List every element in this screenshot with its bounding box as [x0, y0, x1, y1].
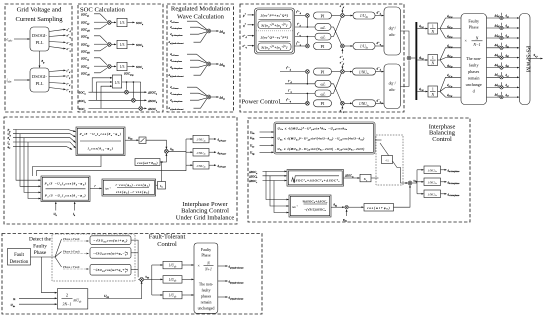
svg-text:1/3: 1/3: [120, 43, 125, 47]
node sum a: [107, 21, 111, 25]
wire SOC_c out: [128, 65, 135, 67]
svg-text:faulty: faulty: [201, 289, 210, 293]
svg-text:1: 1: [432, 25, 434, 29]
wire riser c into 1/3: [101, 86, 112, 108]
wire e-q output: [49, 47, 72, 53]
wire selector output: [397, 168, 408, 184]
block 1/NUdc neg d: [353, 68, 376, 75]
wire d_c,g: [417, 87, 427, 92]
wire dSOC_b input: [248, 174, 287, 179]
svg-text:Under Grid Imbalance: Under Grid Imbalance: [176, 214, 235, 221]
wire r to arctan: [90, 184, 102, 188]
wire i+d output: [49, 69, 71, 74]
svg-text:N+1: N+1: [204, 268, 212, 272]
wire cos to multiplier: [160, 154, 166, 162]
block 1/3 divider c: [117, 62, 127, 70]
block 1/3 divider b: [117, 40, 127, 48]
wire split vertical interphase: [416, 170, 418, 194]
wire delta d_bj out: [211, 63, 219, 65]
wire SOC_b2: [81, 42, 107, 47]
label d_b1g d_b2g d_b3g: [447, 44, 453, 69]
wire ft a to scaler: [182, 264, 194, 266]
wire SOC_c1: [81, 56, 107, 64]
wire to 1/NUdc b: [186, 151, 193, 153]
wire sum to 1/NUdc q: [345, 102, 352, 104]
section box: grid voltage and current sampling: [5, 4, 72, 112]
svg-text:remain: remain: [468, 76, 481, 81]
wire delta d_cj out: [211, 96, 219, 98]
svg-text:The non-: The non-: [199, 283, 214, 287]
node sum row a3: [500, 36, 503, 39]
wire merge to bus bar: [411, 57, 415, 59]
node delta c: [139, 107, 143, 111]
svg-text:abc: abc: [389, 87, 395, 92]
wire e-d feedforward: [340, 60, 345, 68]
node sum e+q: [341, 44, 345, 48]
svg-text:<1: <1: [385, 158, 389, 162]
wire feedback loop 2: [36, 165, 186, 176]
wire d_cj-fault-tolerant out: [218, 296, 244, 301]
node sum row b2: [500, 56, 503, 59]
node sum delta-d c: [207, 95, 211, 99]
group SOC_c averaging: [81, 56, 143, 76]
section box: SOC calculation: [78, 4, 163, 112]
svg-text:Wave Calculation: Wave Calculation: [177, 13, 225, 20]
wire d_aj-interphase: [170, 32, 207, 37]
wire e-d output: [49, 41, 72, 46]
node delta b: [132, 98, 136, 102]
wire SOC_cN: [81, 68, 107, 76]
node sum e-d: [341, 70, 345, 74]
block 1/Udc pos q: [353, 43, 375, 50]
wire theta_g between PLLs: [40, 51, 46, 68]
block 1/N phase b: [428, 55, 438, 66]
wire limit into selector: [375, 139, 382, 141]
svg-text:1/3: 1/3: [120, 65, 125, 69]
wire SOC_bN: [81, 46, 107, 54]
section box: interphase balancing control: [248, 118, 470, 222]
wire modulation row b3: [487, 62, 520, 68]
wire multiplier to split ft: [144, 278, 152, 280]
wire d_a-interphase: [170, 25, 207, 30]
wire SOC_a bus: [79, 91, 147, 96]
neg sequence row: i*-d: [280, 66, 305, 72]
node tap 1: [126, 81, 128, 83]
wire SOC_b bus: [79, 99, 147, 104]
svg-text:Phase a Fault: Phase a Fault: [63, 237, 80, 241]
wire Udc input: [11, 303, 57, 308]
group SOC_b averaging: [81, 34, 144, 54]
wire U_03 to multiplier: [88, 282, 142, 299]
label phase c fault: [63, 265, 89, 269]
wire SOC_c2: [81, 64, 107, 69]
svg-text:remain: remain: [201, 301, 212, 305]
svg-text:The non-: The non-: [466, 56, 482, 61]
block zero-seq voltage amplitude calc: [76, 127, 125, 156]
wire i*+d reference: [295, 10, 306, 16]
block 1/Udc ft a: [163, 261, 182, 269]
wire to 1/Udc ft b: [152, 278, 163, 280]
group SOC_a averaging: [81, 12, 144, 32]
svg-text:ωL: ωL: [321, 83, 326, 87]
svg-text:Phase c Fault: Phase c Fault: [63, 265, 80, 269]
wire wave b out: [131, 252, 138, 254]
wire i_abc input: [7, 78, 30, 84]
wire e_abc input: [7, 37, 30, 43]
node sum c: [107, 65, 111, 69]
block PI controller neg d: [314, 68, 332, 75]
block 1/NUdc power c: [193, 162, 209, 170]
node sum i+d: [306, 14, 310, 18]
wire i-d output: [49, 82, 71, 87]
svg-text:phases: phases: [468, 69, 480, 74]
wire U_0b input: [250, 136, 274, 141]
section box: interphase power balancing under grid unbalance: [4, 117, 237, 224]
block wave c: [90, 264, 131, 275]
block current reference calculator: [255, 8, 295, 54]
wire into multiplier u03: [138, 278, 139, 280]
wire wave c out: [131, 269, 138, 271]
wire fanout b: [438, 48, 461, 68]
block 1/3 average: [112, 75, 121, 88]
svg-text:Current Sampling: Current Sampling: [15, 16, 63, 23]
group delta-d b: [169, 52, 226, 78]
node sum row c1: [500, 76, 503, 79]
wire d_a-interphase out: [441, 169, 460, 173]
wire multiplier to split: [169, 150, 187, 152]
svg-text:ωL: ωL: [321, 26, 326, 30]
svg-text:PS-SPWM: PS-SPWM: [524, 46, 530, 73]
wire split vertical ft: [151, 265, 153, 295]
wire theta_02 out: [331, 204, 344, 208]
block 1/N phase c: [428, 86, 438, 97]
svg-text:Power Control: Power Control: [242, 99, 281, 106]
wire to 1/NUdc a: [186, 138, 193, 140]
wire d_bj-fault-tolerant out: [218, 280, 244, 285]
wire SOC_a2: [81, 20, 107, 25]
wire drop to delta a: [126, 82, 128, 90]
block 1/NUdc interphase c: [424, 190, 441, 198]
block omega-L pos 2: [315, 33, 331, 40]
wire d_cj-interphase: [170, 98, 207, 103]
wire d-d: [376, 67, 384, 72]
wire d-q: [376, 98, 384, 103]
svg-text:N: N: [430, 93, 434, 97]
wire delta d_aj out: [211, 30, 219, 32]
wire phi_a input: [8, 145, 73, 150]
wire d_c-Power: [170, 85, 207, 96]
wire sum to 1/Udc q: [345, 45, 353, 47]
wire U_b bottom input: [54, 202, 58, 217]
svg-text:1: 1: [432, 56, 434, 60]
wire dSOC_a to arctan: [266, 171, 289, 199]
block omega-L neg 2: [315, 90, 331, 97]
wire d_bj-fault-tolerant: [169, 66, 207, 78]
svg-text:unchanged: unchanged: [198, 307, 215, 311]
block dq+/abc transform: [384, 7, 401, 55]
selector dashed box: [376, 135, 403, 185]
inner dashed box: phase selection: [52, 234, 135, 281]
node delta a: [125, 90, 129, 94]
svg-text:PI: PI: [321, 13, 325, 18]
node sum delta-d b: [207, 62, 211, 66]
svg-text:Faulty: Faulty: [201, 247, 211, 252]
wire modulation row c2: [487, 82, 520, 88]
wire wave a out: [131, 240, 138, 277]
wire d_b-Power: [170, 52, 207, 63]
wire to 1/3 a: [112, 21, 117, 23]
node multiplier u_0a: [165, 149, 169, 153]
svg-text:Phase: Phase: [469, 25, 479, 30]
wire modulation row c1: [487, 72, 520, 78]
svg-text:N: N: [475, 35, 479, 40]
node sum row a1: [500, 16, 503, 19]
wire riser a into 1/3: [92, 78, 112, 92]
block 1/Udc ft b: [163, 276, 182, 284]
wire dSOC_m out: [344, 175, 360, 179]
wire i-q output: [49, 88, 71, 94]
block DSOGI-PLL U1 (voltage): [30, 27, 49, 51]
block 1/NUdc neg q: [353, 100, 376, 107]
section box: power control: [240, 4, 404, 112]
node sum delta-d a: [207, 29, 211, 33]
wire PI d to sum: [332, 15, 341, 17]
svg-text:N−1: N−1: [472, 42, 480, 47]
wire sum to 1/NUdc d: [345, 71, 352, 73]
svg-text:2(ed+Q*−eq+P*): 2(ed+Q*−eq+P*): [261, 35, 289, 39]
block Kp gain: [360, 174, 371, 182]
wire SOC_c bus: [79, 107, 147, 112]
wire i+q feedback: [295, 32, 315, 44]
svg-text:faulty: faulty: [469, 63, 480, 68]
svg-text:PLL: PLL: [36, 81, 44, 86]
wire SOC_avg distribution: [122, 81, 141, 83]
wire e+d feedforward: [340, 4, 345, 13]
wire modulation row c3: [487, 92, 520, 98]
wire d_b-interphase: [170, 58, 207, 63]
wire d_aj-fault-tolerant out: [218, 265, 244, 270]
wire omega-L neg cross down: [331, 84, 341, 102]
wire modulation row a3: [487, 33, 520, 39]
svg-text:DSOGI-: DSOGI-: [32, 33, 47, 38]
wire theta to cos block: [160, 162, 161, 182]
block 1/Udc pos d: [353, 12, 375, 19]
svg-text:Detection: Detection: [10, 260, 29, 265]
wire p* input: [242, 13, 254, 17]
switch arm c: [55, 257, 62, 267]
block PI controller neg q: [314, 100, 332, 107]
wire S_xy output: [530, 53, 543, 59]
wire drop bus 2: [20, 134, 41, 187]
wire phi_0a input: [343, 210, 348, 223]
wire d_a,g: [417, 24, 427, 29]
wire d_c-interphase out: [441, 193, 460, 197]
svg-text:Faulty: Faulty: [468, 19, 480, 24]
wire d+q: [375, 41, 384, 46]
wire fault info down to U03 calc: [42, 257, 57, 293]
wire multiplier to split: [412, 182, 417, 184]
wire to 1/NUdc ip a: [417, 169, 424, 171]
block 1/Udc ft c: [163, 291, 182, 299]
switch arm b: [55, 252, 62, 258]
block zero-seq voltage limit calc: [274, 122, 375, 154]
svg-text:1/3: 1/3: [120, 21, 125, 25]
switch arm: [380, 143, 397, 168]
node sum b: [107, 43, 111, 47]
label phase a fault: [63, 237, 89, 241]
wire theta_u input: [8, 136, 76, 142]
wire U_0c input: [250, 144, 274, 149]
block PI controller pos q: [314, 43, 332, 50]
svg-text:Faulty: Faulty: [33, 243, 47, 249]
svg-text:Grid Voltage and: Grid Voltage and: [17, 7, 63, 14]
wire cos to multiplier: [394, 185, 411, 207]
block dq-/abc transform: [384, 64, 401, 109]
svg-text:1/3: 1/3: [114, 80, 119, 85]
wire to 1/NUdc ip c: [417, 193, 424, 195]
wire fault detect out: [31, 256, 56, 258]
wire to 1/NUdc c: [186, 164, 193, 166]
wire U_0a out: [125, 136, 139, 141]
block fault detection: [8, 249, 31, 266]
wire i+q output: [49, 74, 71, 79]
wire to 1/3 b: [112, 43, 117, 45]
wire e-q feedforward: [340, 106, 345, 113]
node sum i-q: [306, 101, 310, 105]
wire fanout c: [438, 77, 461, 97]
svg-text:PLL: PLL: [36, 40, 44, 45]
block 1/3 divider a: [117, 18, 127, 26]
block 1/NUdc interphase b: [424, 178, 441, 186]
block 1/NUdc power b: [193, 149, 209, 157]
block arctan SOC angle: [289, 195, 331, 217]
wire i-q feedback: [285, 89, 315, 102]
block limiter small: [139, 137, 146, 144]
svg-text:U0b ≤ √(MUdc)²−U2phsin²(4π/3−θ: U0b ≤ √(MUdc)²−U2phsin²(4π/3−θ0a) −Uphco…: [278, 137, 365, 142]
wire U_g input: [8, 132, 76, 137]
svg-text:PI: PI: [321, 69, 325, 74]
svg-text:2: 2: [66, 293, 68, 298]
wire modulation row a1: [487, 13, 520, 19]
wire sum to 1/Udc d: [345, 15, 353, 17]
wire ft c to scaler: [182, 294, 194, 296]
node sum row b3: [500, 66, 503, 69]
svg-text:PI: PI: [321, 44, 325, 49]
wire K out to selector: [371, 177, 379, 179]
svg-text:ωL: ωL: [321, 92, 326, 96]
wire drop to delta c: [140, 82, 142, 106]
block theta_0a tag: [158, 182, 166, 190]
block arctan ratio: [102, 179, 156, 196]
wire modulation row b2: [487, 52, 520, 58]
wire d_b-Power out: [209, 152, 226, 156]
block omega-L pos 1: [315, 24, 331, 31]
wire to 1/NUdc ip b: [417, 181, 424, 183]
svg-text:phases: phases: [201, 295, 212, 299]
svg-text:N: N: [430, 30, 434, 34]
svg-text:1: 1: [432, 88, 434, 92]
wire omega-L cross down: [331, 27, 341, 44]
switch arm a: [55, 239, 62, 257]
svg-text:Phase: Phase: [201, 253, 211, 258]
wire drop to delta b: [132, 82, 134, 98]
wire I_b bottom input: [72, 202, 76, 217]
wire SOC_b out: [128, 43, 135, 45]
node sum row b1: [500, 46, 503, 49]
wire ft b to scaler: [182, 278, 194, 280]
wire dSOC_c input: [248, 179, 287, 184]
wire arctan to theta tag: [156, 184, 158, 186]
block comparator <1: [382, 156, 393, 164]
block phase power ratio calc: [41, 176, 90, 202]
wire fanout a: [438, 18, 461, 38]
wire drop bus 4: [28, 142, 41, 199]
wire d_a-Power: [170, 19, 207, 30]
wire U_0a input: [250, 130, 274, 135]
wire split vertical: [185, 139, 187, 165]
wire dSOC_b to arctan: [270, 176, 289, 206]
block U03 amplitude calc: [57, 289, 87, 309]
group delta-d a: [169, 19, 226, 45]
svg-text:×: ×: [198, 263, 200, 268]
wire dq- out to merge: [401, 61, 410, 87]
block 1/NUdc interphase a: [424, 166, 441, 174]
wire to 1/3 c: [112, 65, 117, 67]
svg-text:dq+/: dq+/: [389, 26, 397, 31]
wire dSOC_a input: [248, 170, 287, 175]
svg-text:Phase b Fault: Phase b Fault: [63, 249, 80, 253]
node sum i+q: [306, 44, 310, 48]
wire d_cj-fault-tolerant: [169, 99, 207, 111]
svg-text:Phase: Phase: [34, 250, 47, 256]
wire d_aj-fault-tolerant: [169, 33, 207, 45]
wire i-d feedback: [285, 74, 315, 85]
node tap 2: [133, 81, 135, 83]
wire e+d input: [243, 34, 255, 39]
node multiplier u_03: [140, 278, 144, 282]
block cos(wt+theta_0a): [135, 159, 160, 166]
wire d_c-Power out: [209, 165, 226, 169]
wire to 1/Udc ft c: [152, 294, 163, 296]
wire i*+q reference: [295, 41, 306, 46]
wire omega-L cross up: [331, 17, 341, 36]
wire d_c-interphase: [170, 91, 207, 96]
wire d+d: [375, 10, 384, 15]
block PS-SPWM: [520, 14, 531, 105]
wire i*-q reference: [280, 98, 305, 104]
svg-text:Control: Control: [157, 241, 177, 248]
svg-text:Fault: Fault: [14, 253, 25, 258]
label phase b fault: [63, 249, 89, 253]
block PI controller pos d: [314, 12, 332, 19]
block cos(wt+phi_0): [364, 204, 394, 212]
svg-text:N: N: [430, 61, 434, 65]
block wave a: [90, 236, 131, 245]
block wave b: [90, 248, 131, 259]
node sum e+d: [341, 14, 345, 18]
wire e+q feedforward: [340, 49, 345, 60]
node merge sum: [407, 56, 411, 60]
wire SOC_b1: [81, 34, 107, 42]
svg-text:2(ed+P*+eq+Q*): 2(ed+P*+eq+Q*): [261, 13, 289, 17]
wire SOC_aN: [81, 24, 107, 32]
wire e+q input: [243, 44, 255, 49]
wire dq+ out to merge: [401, 31, 410, 55]
group delta-d c: [169, 85, 225, 111]
node sum row a2: [500, 26, 503, 29]
node sum i-d: [306, 70, 310, 74]
wire feedback loop 1: [32, 156, 101, 177]
